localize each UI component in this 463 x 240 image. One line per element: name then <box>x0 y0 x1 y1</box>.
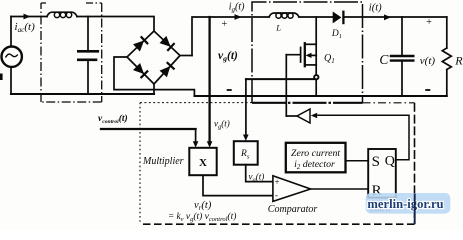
svg-text:+: + <box>275 177 280 187</box>
svg-text:L: L <box>275 23 281 33</box>
svg-text:-: - <box>275 190 278 200</box>
svg-text:Multiplier: Multiplier <box>142 156 184 167</box>
svg-text:i(t): i(t) <box>369 3 382 14</box>
svg-text:Q: Q <box>385 154 395 169</box>
svg-text:merlin-igor.ru: merlin-igor.ru <box>367 197 443 211</box>
svg-text:vr(t): vr(t) <box>194 200 212 212</box>
svg-text:X: X <box>199 157 207 169</box>
svg-text:i2 detector: i2 detector <box>294 159 335 171</box>
svg-text:+: + <box>222 19 228 30</box>
svg-text:R: R <box>454 54 463 68</box>
svg-text:C: C <box>379 52 389 67</box>
svg-text:+: + <box>426 17 432 28</box>
svg-text:Comparator: Comparator <box>268 204 318 215</box>
svg-text:vg(t): vg(t) <box>218 50 238 63</box>
svg-text:v(t): v(t) <box>420 55 436 67</box>
svg-text:S: S <box>372 154 380 170</box>
svg-text:ig(t): ig(t) <box>229 1 245 13</box>
svg-text:Zero current: Zero current <box>291 148 340 159</box>
